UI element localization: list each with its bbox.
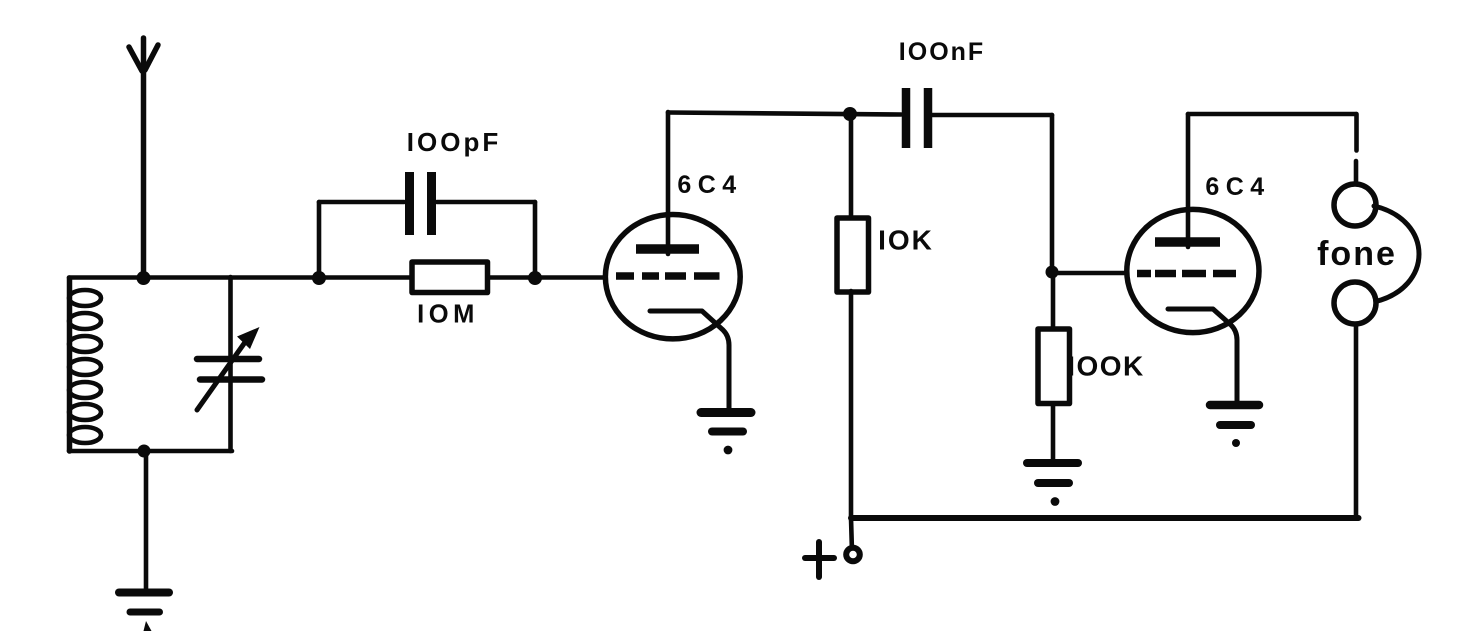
svg-text:6C4: 6C4 [1205, 173, 1270, 201]
svg-text:fone: fone [1317, 235, 1397, 273]
svg-text:IOOK: IOOK [1067, 351, 1145, 382]
svg-text:IOOnF: IOOnF [899, 38, 985, 66]
svg-text:6C4: 6C4 [677, 171, 742, 199]
svg-text:IOOpF: IOOpF [407, 127, 501, 157]
svg-text:IOK: IOK [878, 225, 934, 256]
svg-text:IOM: IOM [417, 301, 479, 329]
